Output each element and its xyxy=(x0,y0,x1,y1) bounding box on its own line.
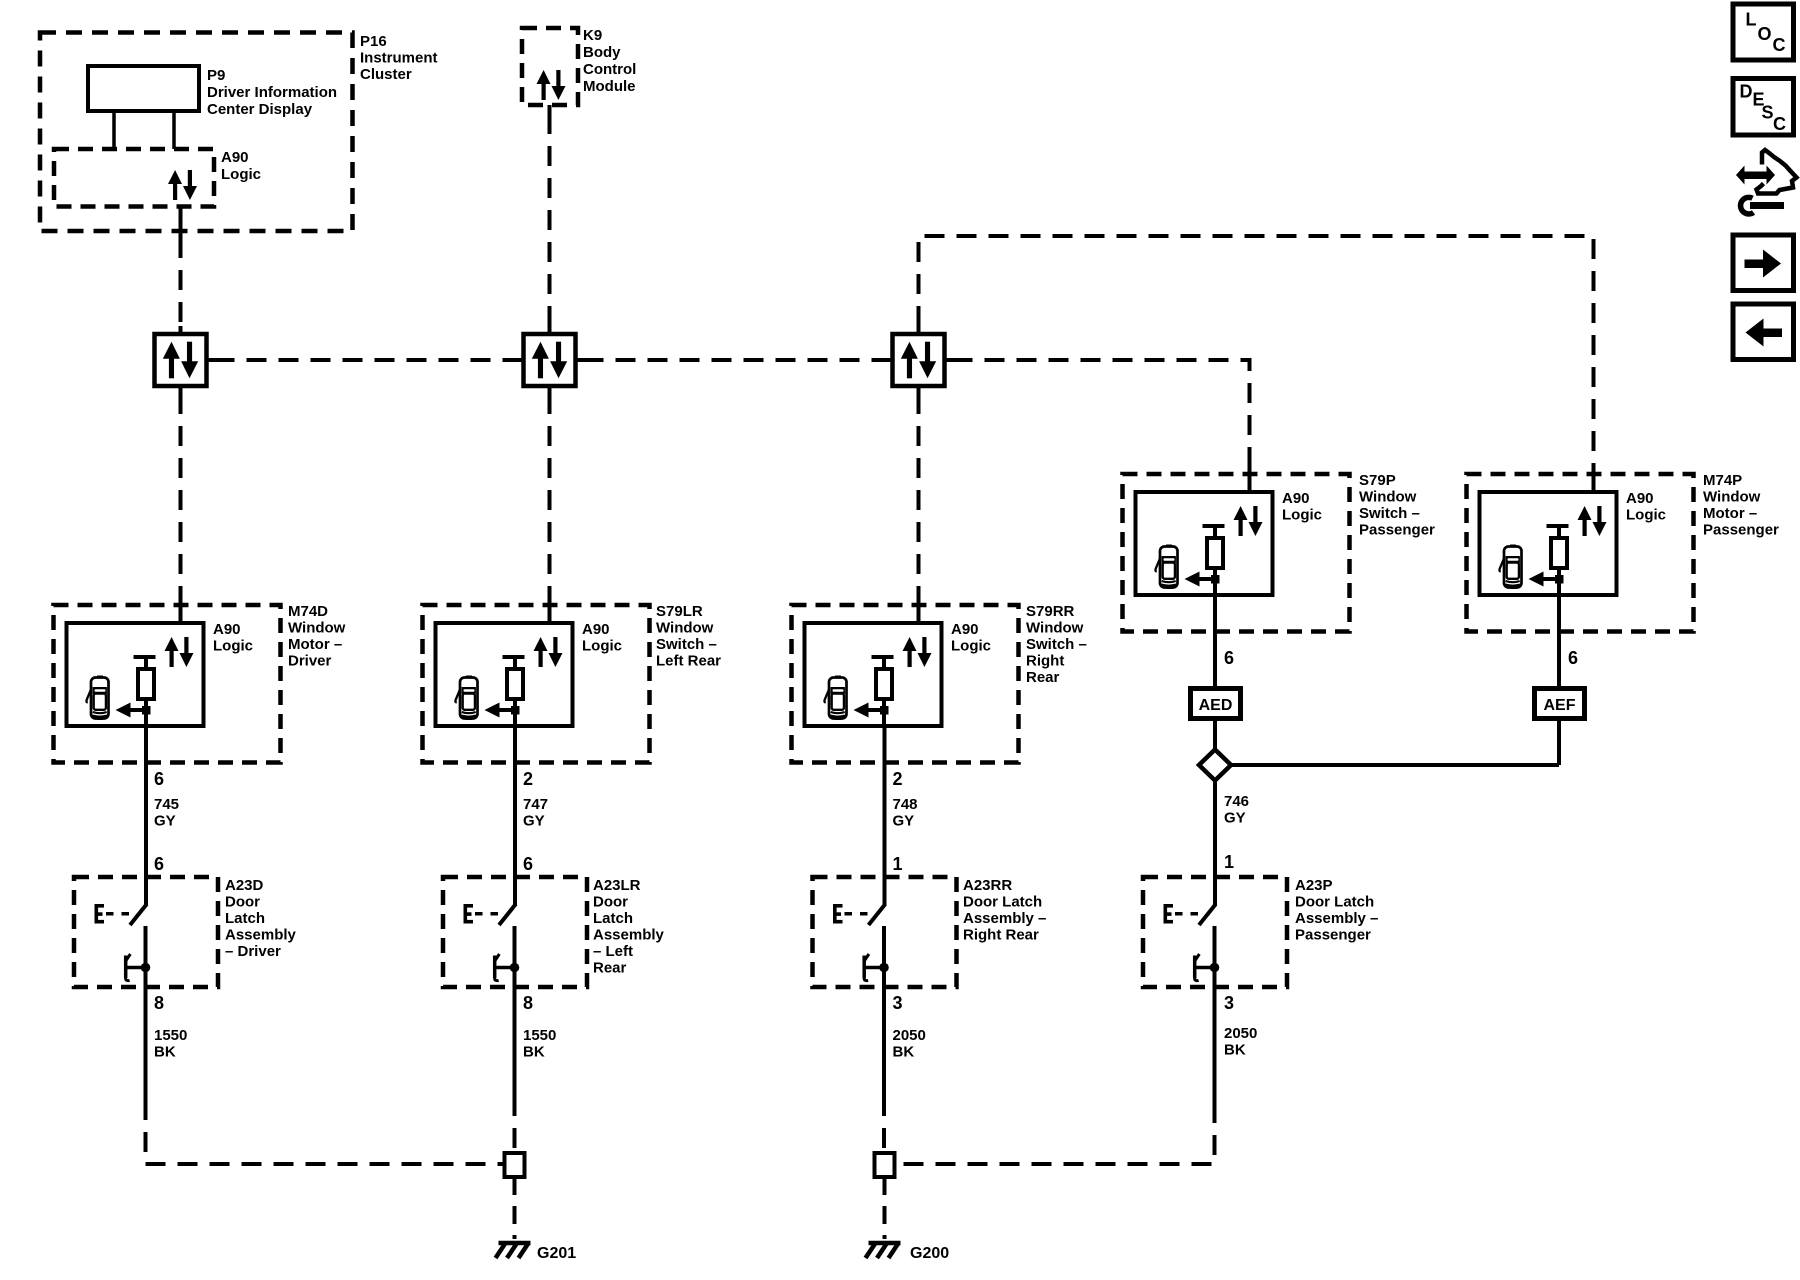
svg-text:Passenger: Passenger xyxy=(1295,927,1371,944)
svg-text:S79LR: S79LR xyxy=(656,603,703,620)
window switch right rear S79RR inner unit xyxy=(805,595,992,726)
wire label 2050 BK xyxy=(893,1027,926,1061)
svg-text:Body: Body xyxy=(583,44,621,61)
svg-text:1: 1 xyxy=(1224,852,1234,872)
window motor passenger M74P inner unit xyxy=(1480,464,1667,595)
body control module K9 dashed box xyxy=(522,28,578,105)
svg-text:Logic: Logic xyxy=(221,166,261,183)
svg-text:Assembly –: Assembly – xyxy=(1295,910,1378,927)
wire label 747 GY xyxy=(523,796,548,830)
svg-text:Motor –: Motor – xyxy=(1703,505,1757,522)
wire splice to AEF branch (horizontal) xyxy=(1231,763,1559,767)
ground G201 xyxy=(496,1243,531,1258)
wire 748 GY S79RR pin2 to A23RR pin1 xyxy=(883,726,887,905)
svg-text:O: O xyxy=(1758,24,1772,44)
door latch assembly right rear A23RR xyxy=(813,877,957,988)
legend icon LOC xyxy=(1733,4,1794,60)
window motor passenger M74P dashed box xyxy=(1467,474,1694,632)
svg-text:Window: Window xyxy=(1026,620,1084,637)
svg-text:C: C xyxy=(1773,114,1786,134)
svg-text:A90: A90 xyxy=(221,149,249,166)
svg-text:3: 3 xyxy=(1224,993,1234,1013)
svg-text:Right Rear: Right Rear xyxy=(963,927,1039,944)
svg-text:S79RR: S79RR xyxy=(1026,603,1075,620)
ground G200 xyxy=(866,1243,901,1258)
door latch assembly driver A23D xyxy=(74,877,218,988)
door latch assembly passenger A23P xyxy=(1143,877,1287,988)
window motor driver M74D inner unit xyxy=(67,595,254,726)
svg-text:Control: Control xyxy=(583,61,636,78)
splice node (diamond) xyxy=(1199,750,1231,781)
wire 2050 BK below A23RR xyxy=(882,987,886,1096)
svg-text:BK: BK xyxy=(154,1044,176,1061)
svg-text:Switch –: Switch – xyxy=(1026,636,1087,653)
svg-text:2: 2 xyxy=(523,769,533,789)
label P16 Instrument Cluster xyxy=(360,33,438,83)
svg-text:G200: G200 xyxy=(910,1245,949,1262)
display P9 xyxy=(88,66,199,111)
svg-text:3: 3 xyxy=(893,993,903,1013)
wire 2050 BK below A23P xyxy=(1213,987,1217,1103)
wire AEF down to splice branch xyxy=(1557,719,1561,766)
svg-text:P16: P16 xyxy=(360,33,387,50)
svg-text:A23LR: A23LR xyxy=(593,877,641,894)
junction G200 xyxy=(875,1153,895,1177)
legend icon arrow left xyxy=(1733,304,1794,360)
svg-text:– Driver: – Driver xyxy=(225,943,281,960)
label A23RR Door Latch Assembly Right Rear xyxy=(963,877,1046,944)
svg-text:8: 8 xyxy=(154,993,164,1013)
svg-text:A23RR: A23RR xyxy=(963,877,1012,894)
serial data arrows in K9 xyxy=(537,70,566,100)
svg-text:8: 8 xyxy=(523,993,533,1013)
svg-text:1: 1 xyxy=(893,854,903,874)
svg-text:BK: BK xyxy=(523,1044,545,1061)
svg-text:1550: 1550 xyxy=(523,1027,556,1044)
wire label 746 GY xyxy=(1224,793,1249,827)
svg-text:Left Rear: Left Rear xyxy=(656,653,721,670)
window switch passenger S79P dashed box xyxy=(1123,474,1350,632)
serial data bus segment node2-node3 xyxy=(584,358,885,362)
svg-text:S: S xyxy=(1762,103,1774,123)
svg-text:Motor –: Motor – xyxy=(288,636,342,653)
door latch assembly left rear A23LR xyxy=(443,877,587,988)
serial data drop to S79RR xyxy=(917,394,921,597)
serial data drop to S79LR xyxy=(548,394,552,597)
legend icon car repair (double arrow, car outline, wrench) xyxy=(1736,150,1797,214)
wire label 748 GY xyxy=(893,796,918,830)
logic block A90 of instrument cluster (dashed box) xyxy=(54,149,214,207)
svg-text:Center Display: Center Display xyxy=(207,101,313,118)
svg-text:Rear: Rear xyxy=(593,960,627,977)
svg-text:1550: 1550 xyxy=(154,1027,187,1044)
label S79P Window Switch Passenger xyxy=(1359,472,1435,539)
legend icon arrow right xyxy=(1733,235,1794,291)
svg-text:Cluster: Cluster xyxy=(360,66,412,83)
junction G201 xyxy=(505,1153,525,1177)
wire junction to ground G201 (dashed) xyxy=(513,1177,517,1239)
svg-text:Assembly: Assembly xyxy=(225,927,297,944)
svg-text:2050: 2050 xyxy=(1224,1025,1257,1042)
wire S79P pin6 to AED xyxy=(1213,595,1217,689)
svg-text:BK: BK xyxy=(893,1044,915,1061)
connector AEF xyxy=(1535,689,1585,719)
svg-text:Driver Information: Driver Information xyxy=(207,84,337,101)
svg-text:2: 2 xyxy=(893,769,903,789)
svg-text:Assembly: Assembly xyxy=(593,927,665,944)
label A23P Door Latch Assembly Passenger xyxy=(1295,877,1378,944)
svg-text:Assembly –: Assembly – xyxy=(963,910,1046,927)
svg-text:Window: Window xyxy=(1703,489,1761,506)
serial data bus node (left) xyxy=(155,334,207,386)
svg-text:Door: Door xyxy=(225,894,260,911)
svg-text:Door: Door xyxy=(593,894,628,911)
svg-text:BK: BK xyxy=(1224,1042,1246,1059)
svg-text:6: 6 xyxy=(523,854,533,874)
svg-text:Switch –: Switch – xyxy=(656,636,717,653)
svg-text:P9: P9 xyxy=(207,67,225,84)
svg-text:G201: G201 xyxy=(537,1245,576,1262)
wire 746 GY splice to A23P pin1 xyxy=(1213,780,1217,905)
label M74P Window Motor Passenger xyxy=(1703,472,1779,539)
svg-text:D: D xyxy=(1740,82,1753,102)
svg-text:Window: Window xyxy=(656,620,714,637)
label A90 Logic xyxy=(221,149,261,183)
wire K9 to bus node (serial data) xyxy=(548,105,552,114)
wire 2050 BK to G200 junction (dashed) xyxy=(895,1103,1215,1164)
svg-text:– Left: – Left xyxy=(593,943,633,960)
svg-text:L: L xyxy=(1746,10,1757,30)
serial data bus segment node3 to M74P xyxy=(919,236,1594,466)
label P9 Driver Information Center Display xyxy=(207,67,337,118)
wire junction to ground G200 (dashed) xyxy=(883,1177,887,1239)
svg-text:GY: GY xyxy=(523,813,545,830)
serial data bus segment node3 to S79P xyxy=(953,360,1250,466)
svg-text:K9: K9 xyxy=(583,27,602,44)
svg-text:747: 747 xyxy=(523,796,548,813)
svg-text:6: 6 xyxy=(154,769,164,789)
svg-text:Door Latch: Door Latch xyxy=(963,894,1042,911)
svg-text:AEF: AEF xyxy=(1544,697,1576,714)
svg-text:GY: GY xyxy=(893,813,915,830)
svg-text:A23D: A23D xyxy=(225,877,264,894)
serial data drop to M74D xyxy=(179,394,183,597)
label A23LR Door Latch Assembly Left Rear xyxy=(593,877,665,977)
svg-text:6: 6 xyxy=(154,854,164,874)
svg-text:Latch: Latch xyxy=(225,910,265,927)
svg-text:Window: Window xyxy=(288,620,346,637)
label A23D Door Latch Assembly Driver xyxy=(225,877,297,960)
svg-text:Instrument: Instrument xyxy=(360,50,438,67)
svg-text:Window: Window xyxy=(1359,489,1417,506)
wire 1550 BK below A23LR xyxy=(513,987,517,1096)
svg-text:748: 748 xyxy=(893,796,918,813)
wire label 2050 BK xyxy=(1224,1025,1257,1059)
wire to G200 junction (dashed) xyxy=(882,1096,886,1153)
serial data bus segment node1-node2 xyxy=(215,358,516,362)
svg-text:Driver: Driver xyxy=(288,653,332,670)
svg-text:S79P: S79P xyxy=(1359,472,1396,489)
wire 1550 BK to G201 junction (dashed) xyxy=(146,1100,505,1164)
window switch right rear S79RR dashed box xyxy=(792,605,1019,763)
wire P9 to A90 (right) xyxy=(172,111,176,149)
svg-text:Latch: Latch xyxy=(593,910,633,927)
svg-text:C: C xyxy=(1773,35,1786,55)
svg-text:GY: GY xyxy=(1224,810,1246,827)
instrument cluster P16 dashed box xyxy=(40,33,353,232)
wire to G201 junction (dashed) xyxy=(513,1096,517,1153)
legend icon DESC xyxy=(1733,79,1794,136)
wire 747 GY S79LR pin2 to A23LR pin6 xyxy=(513,726,517,905)
svg-text:Passenger: Passenger xyxy=(1359,522,1435,539)
svg-text:Passenger: Passenger xyxy=(1703,522,1779,539)
label K9 Body Control Module xyxy=(583,27,636,95)
window switch passenger S79P inner unit xyxy=(1136,464,1323,595)
svg-text:6: 6 xyxy=(1568,648,1578,668)
window motor driver M74D dashed box xyxy=(54,605,281,763)
serial data bus node (middle) xyxy=(524,334,576,386)
label S79LR Window Switch Left Rear xyxy=(656,603,721,670)
serial data arrows in A90 xyxy=(168,170,197,200)
svg-text:746: 746 xyxy=(1224,793,1249,810)
svg-text:Rear: Rear xyxy=(1026,669,1060,686)
svg-text:6: 6 xyxy=(1224,648,1234,668)
wire 1550 BK below A23D xyxy=(144,987,148,1100)
wire label 1550 BK xyxy=(154,1027,187,1061)
svg-text:A23P: A23P xyxy=(1295,877,1333,894)
svg-text:AED: AED xyxy=(1199,697,1233,714)
connector AED xyxy=(1191,689,1241,719)
wire A90 to bus node (serial data) xyxy=(179,207,183,239)
svg-text:GY: GY xyxy=(154,813,176,830)
svg-text:Door Latch: Door Latch xyxy=(1295,894,1374,911)
label M74D Window Motor Driver xyxy=(288,603,346,670)
svg-text:Right: Right xyxy=(1026,653,1064,670)
wire label 1550 BK xyxy=(523,1027,556,1061)
wire AED to splice xyxy=(1213,719,1217,751)
wire label 745 GY xyxy=(154,796,179,830)
wire P9 to A90 (left) xyxy=(112,111,116,149)
svg-text:M74P: M74P xyxy=(1703,472,1742,489)
label S79RR Window Switch Right Rear xyxy=(1026,603,1087,686)
svg-text:745: 745 xyxy=(154,796,179,813)
svg-text:Switch –: Switch – xyxy=(1359,505,1420,522)
svg-text:Module: Module xyxy=(583,78,636,95)
svg-text:2050: 2050 xyxy=(893,1027,926,1044)
wire 745 GY M74D pin6 to A23D pin6 xyxy=(144,726,148,905)
svg-text:M74D: M74D xyxy=(288,603,328,620)
window switch left rear S79LR dashed box xyxy=(423,605,650,763)
wire M74P pin6 to AEF xyxy=(1557,595,1561,689)
window switch left rear S79LR inner unit xyxy=(436,595,623,726)
serial data bus node (right) xyxy=(893,334,945,386)
